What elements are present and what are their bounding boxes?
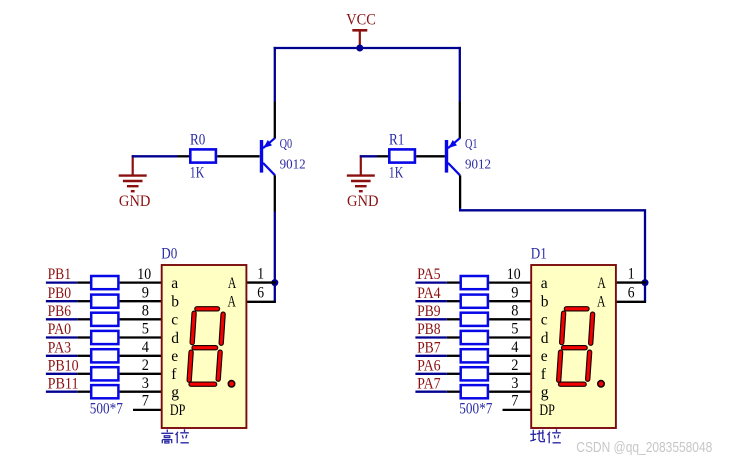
wire Q1 collector elbow to D1 bbox=[460, 208, 645, 302]
7-segment display D1 bbox=[531, 265, 616, 428]
segment c of D1 bbox=[588, 352, 590, 379]
resistor pack RP1 element 2 pin 1 bbox=[77, 300, 90, 302]
resistor pack RP2 element 7 (500 ohm) bbox=[461, 385, 488, 398]
svg-text:PA4: PA4 bbox=[417, 285, 441, 302]
svg-text:GND: GND bbox=[347, 193, 379, 210]
display D1 pin 1 wire bbox=[616, 281, 646, 283]
resistor pack RP2 element 7 pin 1 bbox=[447, 391, 460, 393]
svg-text:VCC: VCC bbox=[346, 12, 376, 29]
caption 地位 (D1, "low digit") bbox=[530, 429, 561, 443]
segment b of D0 bbox=[221, 314, 223, 343]
wire net PB11 bbox=[46, 391, 77, 393]
resistor pack RP1 element 1 pin 1 bbox=[77, 281, 90, 283]
resistor pack RP1 element 3 pin 1 bbox=[77, 318, 90, 320]
segment d of D0 bbox=[191, 382, 215, 387]
svg-text:5: 5 bbox=[511, 321, 518, 338]
wire VCC rail left drop bbox=[274, 47, 276, 102]
svg-text:6: 6 bbox=[628, 284, 635, 301]
svg-text:4: 4 bbox=[142, 339, 149, 356]
wire net PA7 bbox=[415, 391, 446, 393]
wire net PA0 bbox=[46, 336, 77, 338]
resistor pack RP1 element 5 pin 2 / wire to display bbox=[120, 355, 163, 357]
resistor pack RP2 element 3 pin 1 bbox=[447, 318, 460, 320]
segment d of D1 bbox=[561, 382, 585, 387]
svg-text:D0: D0 bbox=[161, 245, 177, 262]
svg-text:1K: 1K bbox=[190, 165, 205, 182]
wire VCC rail right drop bbox=[459, 47, 461, 102]
svg-text:A: A bbox=[597, 275, 606, 292]
svg-text:b: b bbox=[171, 294, 179, 311]
resistor pack RP1 element 5 (500 ohm) bbox=[91, 349, 118, 362]
resistor pack RP2 element 4 (500 ohm) bbox=[461, 331, 488, 344]
svg-text:g: g bbox=[541, 384, 549, 401]
wire net PB9 bbox=[415, 318, 446, 320]
wire display DP pin bbox=[133, 409, 162, 411]
resistor pack RP1 element 7 pin 2 / wire to display bbox=[120, 391, 163, 393]
display D1 pin 6 wire bbox=[616, 301, 646, 303]
ground GND (right) bbox=[347, 155, 379, 210]
junction node at D1 pin 1 bbox=[642, 279, 649, 286]
svg-text:PB0: PB0 bbox=[48, 285, 72, 302]
svg-text:A: A bbox=[597, 294, 606, 311]
resistor pack RP1 element 6 pin 1 bbox=[77, 373, 90, 375]
resistor pack RP1 element 6 (500 ohm) bbox=[91, 367, 118, 380]
segment DP of D1 bbox=[598, 381, 604, 387]
svg-text:10: 10 bbox=[137, 266, 151, 283]
transistor Q1 pin E (emitter lead from rail) bbox=[459, 102, 461, 139]
resistor pack RP1 element 4 pin 1 bbox=[77, 336, 90, 338]
resistor R1 bbox=[389, 149, 415, 162]
svg-text:PA3: PA3 bbox=[48, 339, 72, 356]
wire net PB8 bbox=[415, 336, 446, 338]
resistor pack RP1 element 7 (500 ohm) bbox=[91, 385, 118, 398]
svg-text:R0: R0 bbox=[190, 132, 206, 149]
resistor pack RP2 element 6 pin 2 / wire to display bbox=[489, 373, 532, 375]
svg-text:9: 9 bbox=[511, 284, 518, 301]
resistor R0 pin 2 / wire to Q0 base bbox=[217, 155, 259, 157]
wire net PB1 bbox=[46, 281, 77, 283]
ground GND (left) bbox=[119, 155, 151, 210]
svg-text:1: 1 bbox=[257, 265, 264, 282]
svg-text:D1: D1 bbox=[531, 245, 547, 262]
svg-text:PB6: PB6 bbox=[48, 303, 72, 320]
svg-text:500*7: 500*7 bbox=[90, 400, 123, 417]
resistor pack RP2 element 5 pin 1 bbox=[447, 355, 460, 357]
svg-text:e: e bbox=[171, 348, 178, 365]
svg-text:7: 7 bbox=[142, 392, 149, 409]
transistor Q1 pin C (collector lead) bbox=[459, 175, 461, 208]
resistor pack RP2 element 3 (500 ohm) bbox=[461, 313, 488, 326]
svg-text:b: b bbox=[541, 294, 549, 311]
resistor R0 pin 1 bbox=[178, 155, 190, 157]
segment b of D1 bbox=[591, 314, 593, 343]
wire net PA3 bbox=[46, 355, 77, 357]
7-segment display D0 bbox=[162, 265, 247, 428]
svg-text:9012: 9012 bbox=[465, 156, 491, 171]
resistor pack RP1 element 4 (500 ohm) bbox=[91, 331, 118, 344]
resistor pack RP2 element 1 pin 2 / wire to display bbox=[489, 281, 532, 283]
svg-text:a: a bbox=[541, 275, 548, 292]
display D0 pin 6 wire bbox=[246, 301, 276, 303]
segment DP of D0 bbox=[228, 381, 234, 387]
resistor pack RP2 element 5 (500 ohm) bbox=[461, 349, 488, 362]
resistor pack RP2 element 1 (500 ohm) bbox=[461, 276, 488, 289]
junction VCC node bbox=[356, 45, 363, 52]
resistor pack RP2 element 3 pin 2 / wire to display bbox=[489, 318, 532, 320]
resistor pack RP1 element 7 pin 1 bbox=[77, 391, 90, 393]
wire VCC rail bbox=[274, 47, 461, 49]
segment a of D0 bbox=[197, 306, 218, 311]
svg-text:e: e bbox=[541, 348, 548, 365]
wire net PB10 bbox=[46, 373, 77, 375]
resistor pack RP1 element 2 pin 2 / wire to display bbox=[120, 300, 163, 302]
svg-text:PB9: PB9 bbox=[417, 303, 441, 320]
resistor pack RP2 element 6 (500 ohm) bbox=[461, 367, 488, 380]
resistor pack RP1 element 6 pin 2 / wire to display bbox=[120, 373, 163, 375]
wire Q0 collector to D0 pins 1/6 bbox=[274, 212, 276, 303]
resistor pack RP2 element 4 pin 2 / wire to display bbox=[489, 336, 532, 338]
wire net PB7 bbox=[415, 355, 446, 357]
resistor pack RP2 element 1 pin 1 bbox=[447, 281, 460, 283]
svg-text:9012: 9012 bbox=[280, 156, 306, 171]
segment c of D0 bbox=[218, 352, 220, 379]
svg-text:2: 2 bbox=[511, 357, 518, 374]
transistor Q0 pin C (collector lead) bbox=[274, 175, 276, 211]
resistor R1 pin 2 / wire to Q1 base bbox=[416, 155, 445, 157]
transistor Q0 pin E (emitter lead from rail) bbox=[274, 102, 276, 139]
svg-text:A: A bbox=[228, 294, 237, 311]
svg-text:4: 4 bbox=[511, 339, 518, 356]
segment f of D0 bbox=[192, 313, 194, 342]
segment e of D0 bbox=[189, 352, 191, 380]
svg-text:CSDN @qq_2083558048: CSDN @qq_2083558048 bbox=[576, 439, 712, 456]
transistor Q0 (PNP 9012) bbox=[260, 138, 275, 175]
resistor pack RP2 element 5 pin 2 / wire to display bbox=[489, 355, 532, 357]
resistor pack RP1 element 3 pin 2 / wire to display bbox=[120, 318, 163, 320]
svg-text:2: 2 bbox=[142, 357, 149, 374]
segment a of D1 bbox=[566, 306, 587, 311]
svg-text:3: 3 bbox=[511, 375, 518, 392]
svg-text:1K: 1K bbox=[389, 165, 404, 182]
svg-text:A: A bbox=[228, 275, 237, 292]
wire GND1 to R0 bbox=[132, 155, 178, 157]
junction node at D0 pin 1 bbox=[271, 279, 278, 286]
svg-text:PA0: PA0 bbox=[48, 321, 72, 338]
svg-text:PA7: PA7 bbox=[417, 375, 441, 392]
svg-text:PA5: PA5 bbox=[417, 266, 441, 283]
segment g of D1 bbox=[564, 345, 586, 350]
wire GND2 to R1 bbox=[360, 155, 377, 157]
svg-text:PB7: PB7 bbox=[417, 339, 441, 356]
svg-text:DP: DP bbox=[539, 402, 555, 419]
transistor Q1 (PNP 9012) bbox=[445, 138, 460, 175]
svg-text:GND: GND bbox=[119, 193, 150, 210]
wire display DP pin bbox=[503, 409, 532, 411]
svg-text:8: 8 bbox=[511, 303, 518, 320]
svg-text:c: c bbox=[171, 312, 178, 329]
wire net PA6 bbox=[415, 373, 446, 375]
segment g of D0 bbox=[194, 345, 216, 350]
svg-text:d: d bbox=[171, 330, 179, 347]
caption 高位 (D0, "high digit") bbox=[161, 429, 189, 443]
svg-text:PB1: PB1 bbox=[48, 266, 72, 283]
svg-text:6: 6 bbox=[257, 284, 264, 301]
svg-text:500*7: 500*7 bbox=[459, 400, 492, 417]
resistor pack RP1 element 1 (500 ohm) bbox=[91, 276, 118, 289]
resistor pack RP1 element 3 (500 ohm) bbox=[91, 313, 118, 326]
svg-text:R1: R1 bbox=[389, 132, 404, 149]
wire net PB6 bbox=[46, 318, 77, 320]
resistor pack RP1 element 2 (500 ohm) bbox=[91, 295, 118, 308]
svg-text:Q0: Q0 bbox=[280, 136, 293, 151]
resistor pack RP2 element 2 pin 1 bbox=[447, 300, 460, 302]
resistor pack RP1 element 1 pin 2 / wire to display bbox=[120, 281, 163, 283]
svg-text:PB10: PB10 bbox=[48, 357, 79, 374]
svg-text:7: 7 bbox=[511, 392, 518, 409]
svg-text:g: g bbox=[171, 384, 179, 401]
svg-text:3: 3 bbox=[142, 375, 149, 392]
wire net PB0 bbox=[46, 300, 77, 302]
resistor pack RP2 element 7 pin 2 / wire to display bbox=[489, 391, 532, 393]
svg-text:5: 5 bbox=[142, 321, 149, 338]
svg-text:1: 1 bbox=[628, 265, 635, 282]
wire net PA4 bbox=[415, 300, 446, 302]
svg-text:10: 10 bbox=[507, 266, 521, 283]
resistor pack RP2 element 2 pin 2 / wire to display bbox=[489, 300, 532, 302]
resistor pack RP2 element 2 (500 ohm) bbox=[461, 295, 488, 308]
svg-text:PB8: PB8 bbox=[417, 321, 441, 338]
svg-text:f: f bbox=[541, 366, 547, 383]
resistor pack RP1 element 4 pin 2 / wire to display bbox=[120, 336, 163, 338]
svg-text:a: a bbox=[171, 275, 178, 292]
svg-text:PB11: PB11 bbox=[48, 375, 79, 392]
resistor R0 bbox=[190, 149, 216, 162]
resistor pack RP1 element 5 pin 1 bbox=[77, 355, 90, 357]
svg-text:Q1: Q1 bbox=[465, 136, 478, 151]
svg-text:d: d bbox=[541, 330, 549, 347]
svg-text:c: c bbox=[541, 312, 548, 329]
resistor pack RP2 element 4 pin 1 bbox=[447, 336, 460, 338]
resistor R1 pin 1 bbox=[377, 155, 389, 157]
svg-text:f: f bbox=[171, 366, 177, 383]
power symbol VCC bbox=[346, 12, 376, 48]
segment e of D1 bbox=[559, 352, 561, 380]
svg-text:9: 9 bbox=[142, 284, 149, 301]
svg-text:8: 8 bbox=[142, 303, 149, 320]
display D0 pin 1 wire bbox=[246, 281, 276, 283]
svg-text:DP: DP bbox=[170, 402, 186, 419]
segment f of D1 bbox=[562, 313, 564, 342]
wire net PA5 bbox=[415, 281, 446, 283]
resistor pack RP2 element 6 pin 1 bbox=[447, 373, 460, 375]
svg-text:PA6: PA6 bbox=[417, 357, 441, 374]
